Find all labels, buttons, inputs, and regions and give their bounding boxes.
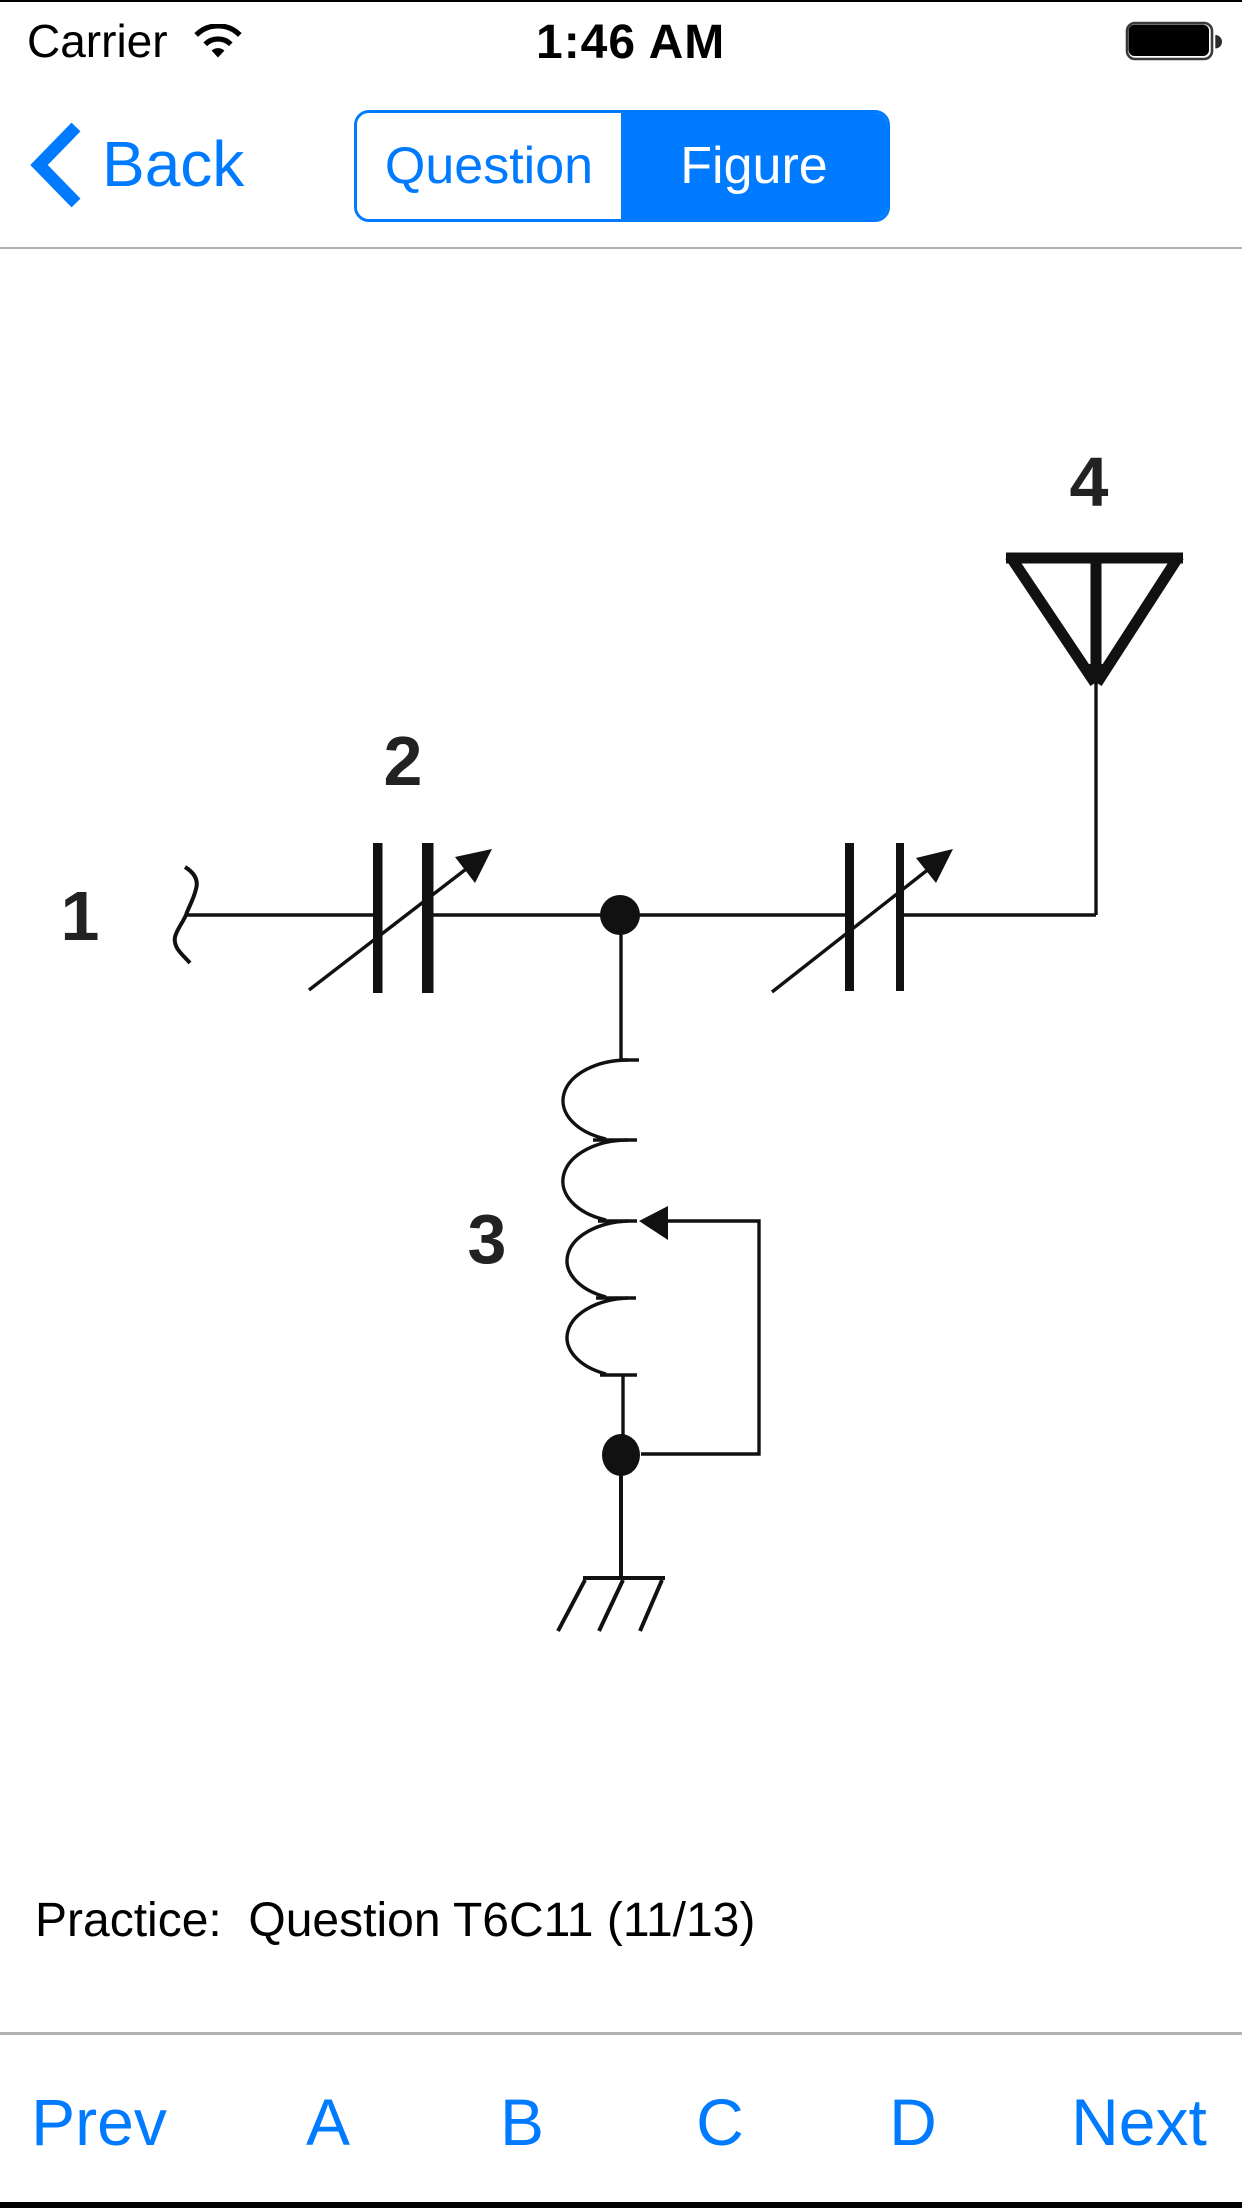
toolbar: Prev <box>31 2084 167 2160</box>
inductor tick 4 <box>596 1296 636 1299</box>
status bar: time <box>536 15 725 70</box>
variable capacitor right arrow shaft <box>772 868 930 992</box>
antenna center stem <box>1091 556 1102 676</box>
svg-text:3: 3 <box>468 1200 507 1278</box>
tap arrowhead <box>639 1206 668 1240</box>
practice caption <box>35 1893 755 1948</box>
antenna right side <box>1097 556 1179 683</box>
inductor tap tick <box>598 1219 637 1222</box>
wire C2 to C-right through node <box>433 913 845 916</box>
bottom black bar <box>0 2202 1242 2208</box>
tap loop wire <box>641 1221 759 1454</box>
wire C-right to antenna feed <box>904 913 1096 916</box>
back label <box>102 127 244 201</box>
bottom junction dot <box>602 1434 640 1476</box>
svg-text:1: 1 <box>61 877 100 955</box>
inductor tick 2 <box>593 1138 637 1141</box>
wire node down to coil <box>619 915 622 1060</box>
cap right arrowhead <box>916 849 953 883</box>
svg-text:4: 4 <box>1070 443 1109 521</box>
wire bottom node to ground <box>619 1455 623 1578</box>
inductor turn 3 <box>567 1221 628 1297</box>
wire input to C2 <box>186 913 373 916</box>
back chevron <box>27 121 89 211</box>
antenna apex fill <box>1085 664 1107 687</box>
toolbar: C <box>696 2084 744 2160</box>
toolbar: A <box>306 2084 350 2160</box>
status bar: battery <box>1124 20 1224 64</box>
cap 2 arrowhead <box>455 849 492 883</box>
inductor bottom tick <box>600 1373 637 1376</box>
capacitor 2 left plate <box>373 843 383 993</box>
toolbar: B <box>500 2084 544 2160</box>
antenna feed wire <box>1094 680 1097 915</box>
node 1 feed squiggle <box>175 867 197 963</box>
inductor turn 1 <box>563 1060 628 1139</box>
top black bar <box>0 0 1242 2</box>
toolbar: D <box>889 2084 937 2160</box>
inductor turn 4 <box>567 1298 628 1374</box>
ground bar <box>583 1576 665 1580</box>
inductor turn 2 <box>563 1140 628 1220</box>
antenna left side <box>1010 556 1095 683</box>
ground slash 1 <box>558 1580 585 1631</box>
svg-text:2: 2 <box>384 722 423 800</box>
antenna top bar <box>1006 553 1183 564</box>
inductor top tick <box>621 1058 639 1061</box>
nav bottom border <box>0 247 1242 249</box>
wire coil to bottom node <box>621 1375 624 1455</box>
status bar: wifi icon <box>193 24 243 60</box>
capacitor right left plate <box>845 843 854 991</box>
variable capacitor 2 arrow shaft <box>309 866 470 990</box>
toolbar: Next <box>1071 2084 1207 2160</box>
status bar: Carrier <box>27 14 168 68</box>
capacitor right right plate <box>896 843 904 991</box>
node junction dot <box>600 895 640 935</box>
ground slash 2 <box>599 1580 623 1631</box>
segmented control <box>354 110 890 222</box>
toolbar separator <box>0 2032 1242 2035</box>
ground slash 3 <box>640 1580 662 1631</box>
capacitor 2 right plate <box>422 843 434 993</box>
